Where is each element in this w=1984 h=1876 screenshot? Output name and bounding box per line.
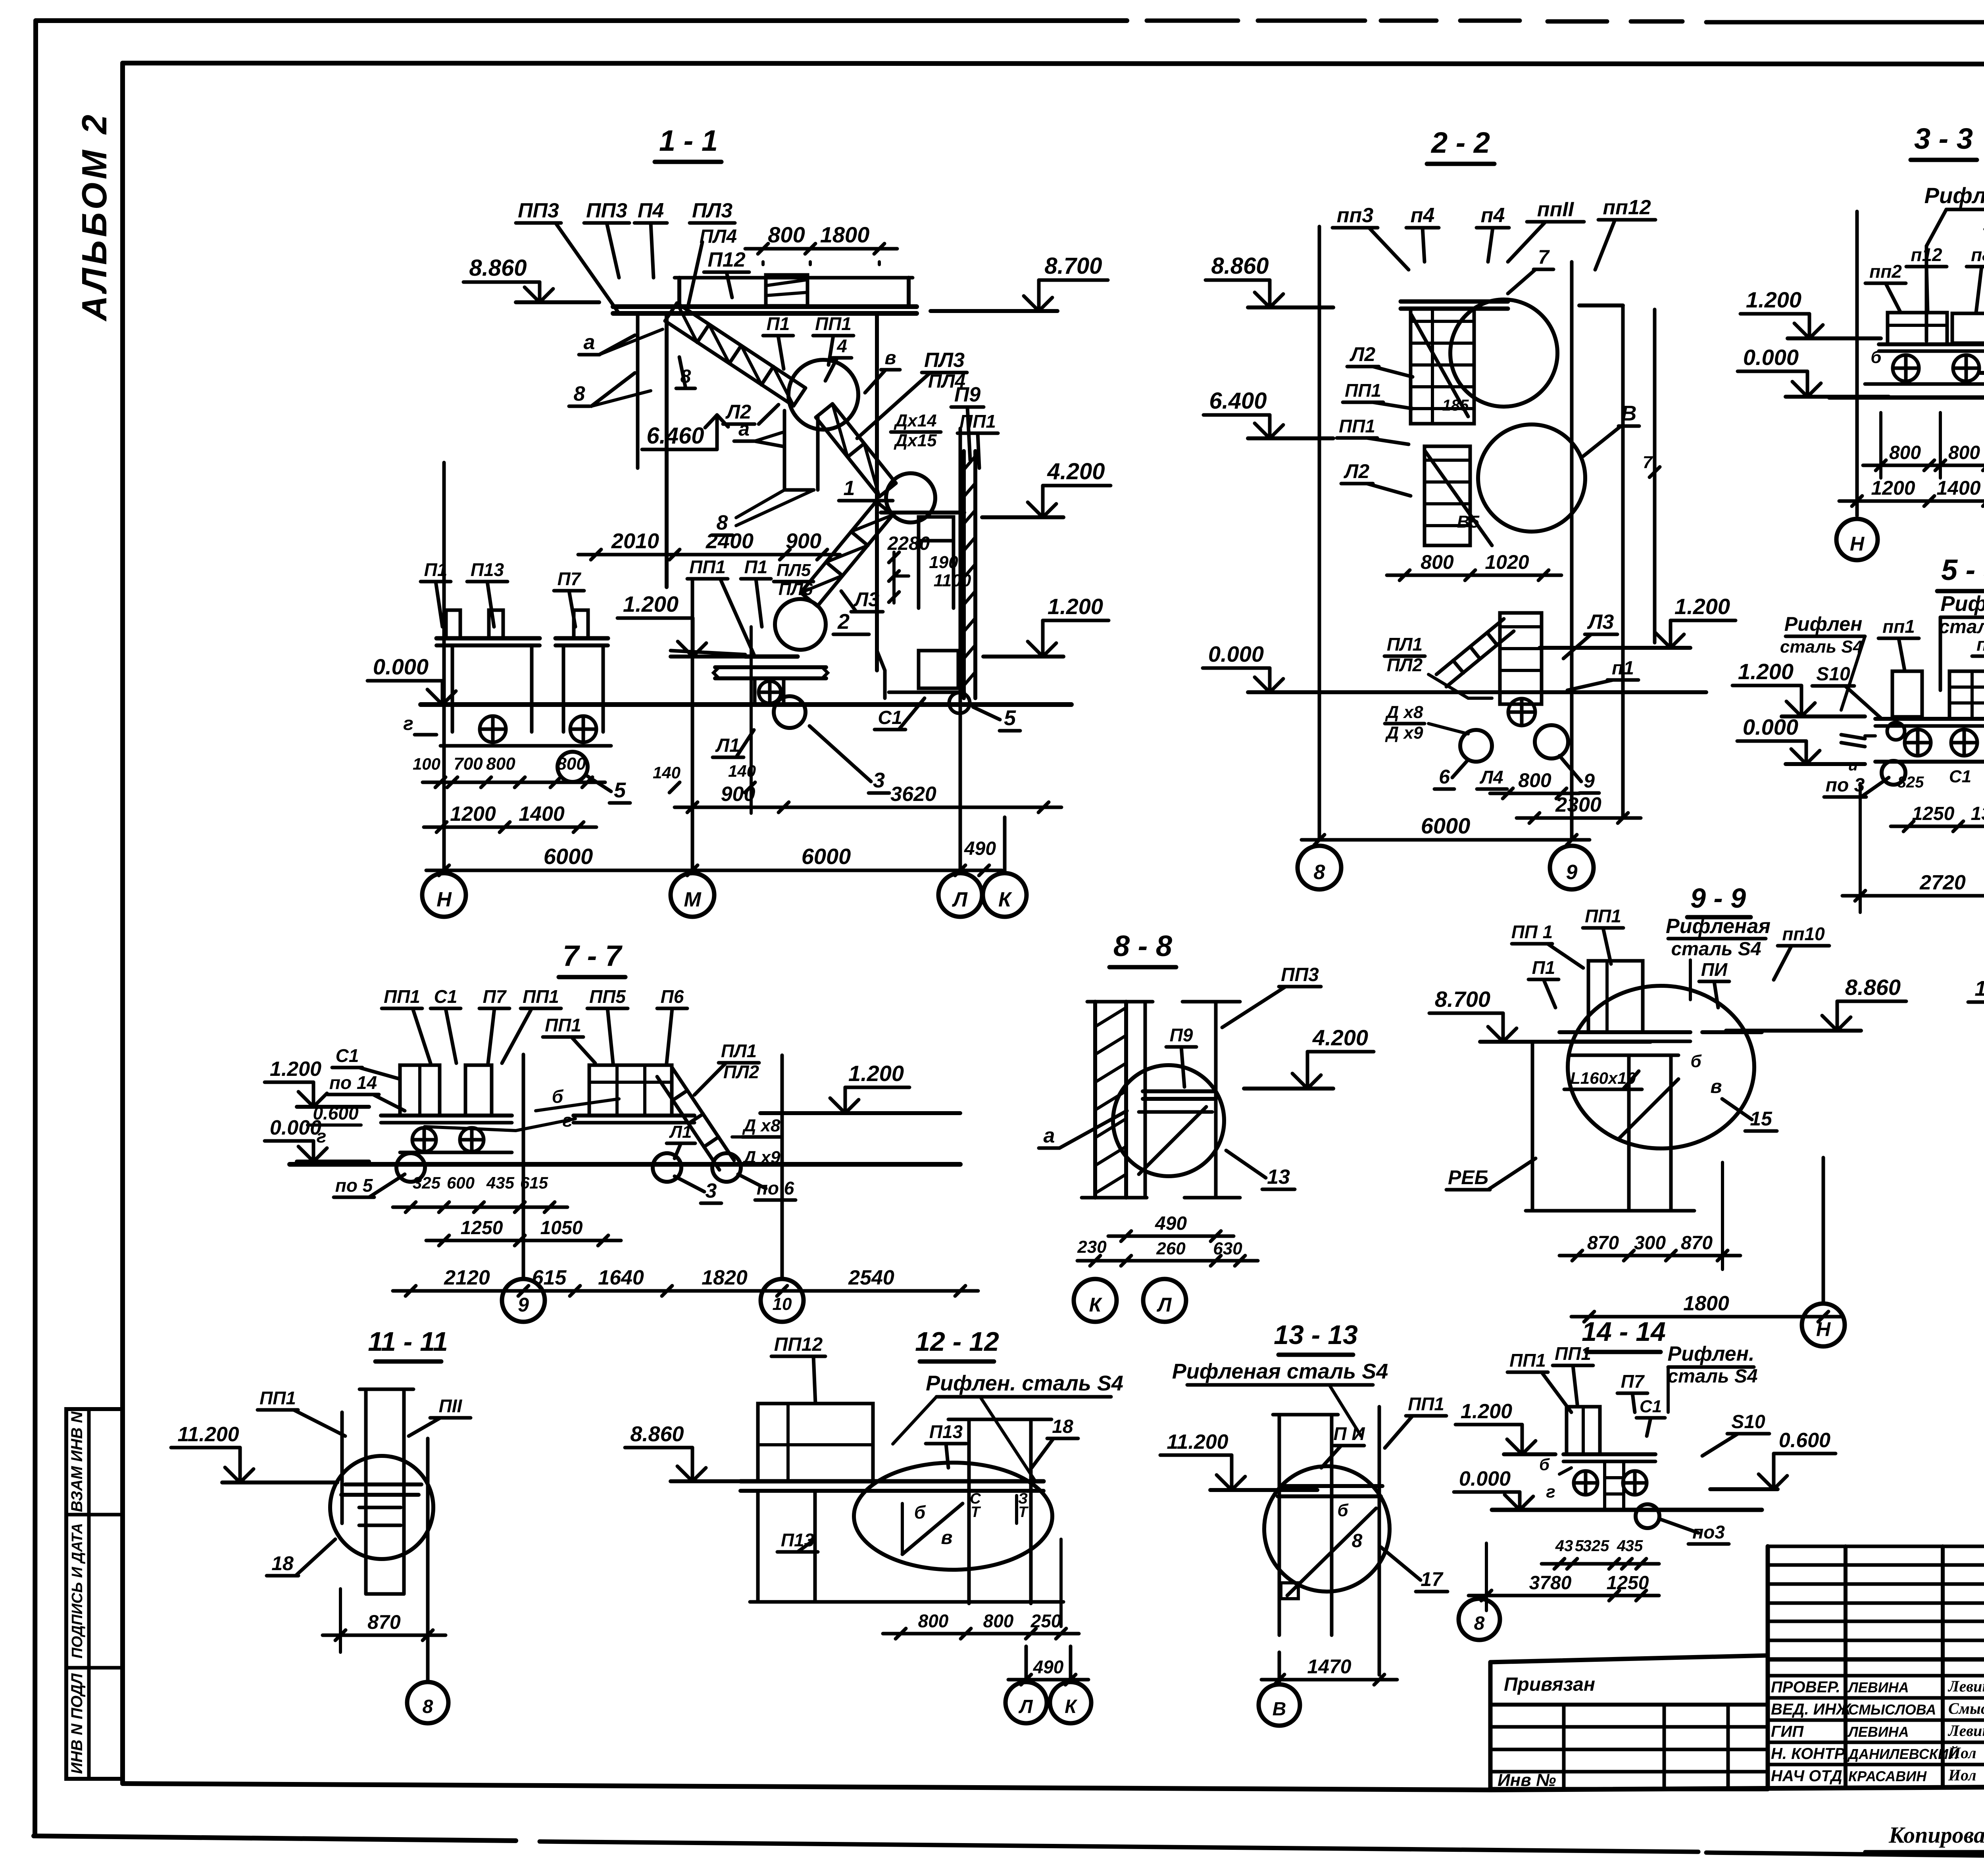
svg-text:490: 490 [1033,1657,1064,1677]
svg-text:140: 140 [653,763,681,782]
svg-text:СМЫСЛОВА: СМЫСЛОВА [1848,1701,1936,1718]
svg-text:900: 900 [786,529,821,553]
svg-text:ПЛ2: ПЛ2 [1387,655,1423,675]
svg-text:п8: п8 [1976,634,1984,655]
dimension chain 1800 [1571,1315,1841,1319]
svg-text:Инв №: Инв № [1498,1770,1556,1790]
svg-text:700: 700 [454,754,483,774]
inner frame bottom [123,1784,1490,1790]
section 1-1 stair truss L3 lower flight [817,515,893,606]
svg-text:ПОДПИСЬ И ДАТА: ПОДПИСЬ И ДАТА [69,1523,86,1659]
svg-text:8: 8 [574,382,585,405]
svg-text:Н: Н [1850,533,1865,555]
svg-text:800: 800 [1889,442,1921,463]
svg-text:S10: S10 [1731,1411,1765,1432]
svg-text:800: 800 [918,1611,949,1631]
section 8-8 detail circle [1113,1065,1224,1176]
svg-text:П7: П7 [1621,1371,1645,1392]
section 7-7 ground [290,1162,960,1167]
section 9-9 verticals [1531,1042,1534,1211]
section 1-1 wall hatched right [962,451,966,698]
svg-text:8 - 8: 8 - 8 [1113,929,1173,962]
section 1-1 long pipe [715,665,826,669]
svg-text:1050: 1050 [540,1217,583,1239]
svg-text:1640: 1640 [598,1266,644,1289]
svg-text:ппII: ппII [1537,198,1575,221]
dimension chain 2010/2400/900 [578,553,840,557]
svg-text:ВЕД. ИНЖ: ВЕД. ИНЖ [1771,1701,1851,1718]
svg-text:1.200: 1.200 [1048,594,1103,619]
svg-text:ПП1: ПП1 [1509,1350,1546,1371]
svg-text:Привязан: Привязан [1504,1674,1595,1695]
svg-text:a: a [584,331,595,354]
svg-text:Н: Н [436,888,452,911]
svg-text:1800: 1800 [1683,1292,1729,1315]
svg-text:2120: 2120 [444,1266,490,1289]
dimension chain 800/1800 [745,247,897,251]
section 11-11 plates [345,1482,421,1486]
section 5-5 equipment [1892,671,1922,717]
svg-text:5: 5 [614,778,626,802]
svg-text:490: 490 [964,838,996,859]
svg-text:a: a [1044,1124,1055,1147]
svg-text:2400: 2400 [706,529,754,553]
section 2-2 axes verticals [1318,227,1321,840]
section 9-9 oval detail [1568,986,1754,1148]
svg-text:325: 325 [413,1173,441,1192]
svg-text:0.000: 0.000 [1459,1467,1511,1490]
svg-text:S10: S10 [1816,664,1850,685]
svg-text:ПП 1: ПП 1 [1511,922,1553,942]
svg-text:П9: П9 [1170,1025,1193,1045]
section 12-12 big box [758,1404,873,1481]
svg-text:9: 9 [1584,770,1595,792]
dimension chain 1200/1400 [424,826,596,829]
section 9-9 inner details [1627,1055,1631,1211]
svg-text:Л4: Л4 [1479,767,1503,787]
svg-text:0.000: 0.000 [1208,641,1264,666]
svg-text:1.200: 1.200 [1746,287,1801,312]
svg-text:100: 100 [413,755,440,773]
svg-text:Д х8: Д х8 [1385,703,1423,722]
svg-text:5 - 5: 5 - 5 [1941,553,1984,586]
section 1-1 chute box below landing [783,411,786,490]
section 8-8 shaft verticals [1144,1002,1147,1198]
axis circle Л [1143,1279,1186,1322]
svg-text:230: 230 [1077,1237,1107,1257]
svg-text:Дх14: Дх14 [893,411,936,430]
svg-text:П13: П13 [781,1530,815,1550]
section 3-3 ground line [1829,396,1984,400]
title block left table [1490,1655,1768,1662]
dimension chain 870/300/870 [1559,1254,1740,1258]
svg-text:325: 325 [1583,1537,1609,1555]
svg-text:РЕБ: РЕБ [1448,1166,1488,1189]
section 3-3 equipment boxes [1888,313,1947,344]
svg-text:630: 630 [1213,1239,1242,1258]
svg-text:600: 600 [447,1173,475,1192]
dimension chain 870 [323,1634,446,1637]
svg-text:П13: П13 [929,1421,963,1442]
section 7-7 equipment left [400,1065,440,1116]
section 1-1 circled 3 below [774,696,806,728]
dimension chain 3780/1250 [1469,1594,1659,1598]
axis circle К [983,873,1027,917]
svg-text:3 - 3: 3 - 3 [1914,122,1973,155]
svg-text:800: 800 [768,222,805,247]
svg-text:С1: С1 [434,986,458,1007]
dimension chain //// [423,781,605,784]
svg-text:800: 800 [1421,551,1454,573]
axis circle В [1278,1652,1281,1684]
svg-text:ПП1: ПП1 [1345,380,1381,401]
svg-text:8: 8 [1314,861,1325,884]
svg-text:Д х8: Д х8 [742,1116,781,1135]
title block staff table grid [1768,1545,1984,1548]
dimension chain 800/1020 [1387,574,1561,577]
svg-text:Иол: Иол [1948,1744,1976,1762]
svg-text:Л: Л [1157,1294,1172,1316]
svg-text:б: б [552,1086,564,1107]
section 13-13 detail circle [1264,1466,1390,1592]
section 1-1 elbow circle 1 [886,473,935,522]
svg-text:6000: 6000 [1421,813,1471,838]
axis circle Л [938,873,982,917]
svg-text:870: 870 [1681,1233,1713,1254]
svg-text:в: в [1711,1076,1722,1097]
svg-text:Л2: Л2 [1350,343,1375,365]
svg-text:по 5: по 5 [335,1175,373,1196]
svg-text:11 - 11: 11 - 11 [368,1327,448,1357]
svg-text:пп12: пп12 [1603,196,1651,219]
dimension chain 1200/1400 [1839,499,1984,503]
svg-text:В: В [1273,1699,1286,1720]
svg-text:1250: 1250 [1912,803,1955,824]
svg-text:1200: 1200 [450,803,496,826]
section 1-1 right equipment at wall [919,651,958,688]
svg-text:ЛЕВИНА: ЛЕВИНА [1847,1679,1909,1696]
axis circle К [1074,1279,1117,1322]
section 7-7 stair right [672,1067,734,1160]
section 7-7 equipment right grid [589,1065,672,1116]
svg-text:ПЛ1: ПЛ1 [721,1041,757,1061]
svg-text:ПП1: ПП1 [384,986,420,1007]
svg-text:1 - 1: 1 - 1 [659,124,718,157]
svg-text:П1: П1 [1532,957,1555,978]
svg-text:С1: С1 [878,707,902,728]
svg-text:9: 9 [1566,861,1578,884]
svg-text:260: 260 [1156,1239,1186,1258]
svg-text:ПП1: ПП1 [1408,1394,1444,1414]
svg-text:7: 7 [1643,453,1653,472]
svg-text:11.200: 11.200 [177,1423,239,1446]
svg-text:35: 35 [1625,1537,1643,1555]
svg-text:7: 7 [1538,246,1550,268]
svg-text:3: 3 [706,1179,717,1202]
inner frame top [123,63,1984,64]
svg-text:п4: п4 [1411,204,1435,227]
section 2-2 top platform [1401,300,1508,304]
svg-text:0.600: 0.600 [1779,1429,1830,1452]
svg-text:8: 8 [423,1696,433,1717]
section 13-13 plates [1281,1484,1382,1488]
svg-text:1250: 1250 [1607,1573,1649,1594]
svg-text:ПП1: ПП1 [689,557,726,577]
section 12-12 oval detail [854,1463,1052,1570]
svg-text:ЛЕВИНА: ЛЕВИНА [1847,1724,1909,1740]
svg-text:п12: п12 [1911,244,1942,265]
svg-text:ПП1: ПП1 [545,1015,581,1035]
section 3-3 axis vertical [1855,211,1859,516]
dimension chain 6000 [1302,838,1590,842]
svg-text:11.200: 11.200 [1974,977,1984,1000]
sheet outer border bottom [34,1836,516,1841]
section 9-9 axis [1822,1158,1825,1303]
svg-text:870: 870 [1587,1233,1619,1254]
svg-text:ПП1: ПП1 [959,411,996,432]
svg-text:18: 18 [1052,1416,1073,1437]
svg-text:Д х9: Д х9 [1385,723,1423,743]
svg-text:П7: П7 [558,568,582,589]
svg-text:П6: П6 [661,986,684,1007]
svg-text:ПИ: ПИ [1701,959,1728,980]
svg-text:825: 825 [1897,774,1924,791]
svg-text:6.400: 6.400 [1209,388,1267,414]
svg-text:К: К [1065,1696,1078,1717]
svg-text:и: и [1848,757,1858,774]
svg-text:пп2: пп2 [1869,261,1902,282]
svg-text:190: 190 [929,553,958,572]
svg-text:1100: 1100 [934,571,971,590]
svg-text:К: К [1089,1294,1103,1316]
dimension chain 2300 [1517,816,1641,820]
section 9-9 break line bottom [1526,1209,1694,1213]
section 12-12 platform [740,1479,1044,1484]
section 12-12 bottom dim line [750,1600,1063,1604]
svg-text:490: 490 [1155,1213,1187,1234]
section 1-1 lower landing circle 2 [775,599,826,650]
svg-text:1200: 1200 [1871,477,1915,499]
svg-text:800: 800 [557,754,586,774]
svg-text:1.200: 1.200 [623,591,679,616]
svg-text:1400: 1400 [1936,477,1980,499]
svg-text:Рифленая сталь S4: Рифленая сталь S4 [1172,1359,1388,1383]
dimension chain 800/800/250 [883,1632,1079,1636]
svg-text:по 14: по 14 [329,1072,377,1093]
section 1-1 upper platform 8.700 [613,304,917,309]
svg-text:в: в [941,1527,953,1548]
svg-text:250: 250 [1030,1611,1061,1631]
svg-text:Левина: Левина [1947,1722,1984,1740]
axis circle 9 [1550,846,1594,889]
svg-text:Рифлен.: Рифлен. [1940,592,1984,616]
svg-text:Рифленая: Рифленая [1666,915,1771,938]
svg-text:3620: 3620 [890,783,936,806]
svg-text:п8: п8 [1971,244,1984,265]
svg-text:ПII: ПII [439,1396,463,1416]
svg-text:б: б [1539,1455,1550,1474]
dimension chain 2120/615/1640/1820/2540 [393,1289,978,1293]
svg-text:14 - 14: 14 - 14 [1582,1317,1666,1347]
svg-text:2300: 2300 [1555,793,1601,816]
svg-text:0.000: 0.000 [1743,345,1799,370]
section 9-9 plates [1559,1030,1690,1034]
section 1-1 bracket at wall [919,517,954,541]
section 2-2 wheel [1508,699,1535,726]
svg-text:Левина: Левина [1947,1677,1984,1695]
svg-text:Рифленая сталь: Рифленая сталь [1924,183,1984,208]
svg-text:Л3: Л3 [1587,611,1614,634]
svg-text:ПЛ3: ПЛ3 [924,349,965,372]
section 1-1 circled 5 left [558,752,588,782]
svg-text:4: 4 [836,336,847,356]
svg-text:0.000: 0.000 [1743,714,1798,739]
dimension chain 6000/6000/ [426,869,1002,872]
svg-text:1.200: 1.200 [1738,659,1794,684]
svg-text:ДАНИЛЕВСКИЙ: ДАНИЛЕВСКИЙ [1847,1745,1959,1762]
svg-text:С1: С1 [336,1045,359,1066]
svg-text:С1: С1 [1949,767,1971,786]
svg-text:г: г [1546,1482,1555,1502]
section 8-8 plates [1143,1089,1214,1093]
svg-text:2: 2 [837,610,850,634]
section 2-2 small circles bottom [1460,730,1492,762]
section 13-13 column [1278,1415,1281,1635]
section 12-12 left column below [756,1491,760,1602]
svg-text:П12: П12 [707,248,745,271]
axis circle Н [422,873,466,917]
svg-text:2720: 2720 [1919,871,1966,894]
section 7-7 axes [522,1054,525,1279]
svg-text:1.200: 1.200 [1674,594,1730,619]
svg-text:ПЛ5: ПЛ5 [777,561,811,580]
svg-text:18: 18 [271,1552,294,1575]
svg-text:0.000: 0.000 [270,1116,321,1139]
svg-text:пп3: пп3 [1337,204,1374,227]
svg-text:13 - 13: 13 - 13 [1274,1320,1358,1350]
svg-text:Дх15: Дх15 [893,431,937,450]
svg-text:6000: 6000 [544,844,593,869]
section 14-14 ground [1492,1508,1762,1512]
svg-text:10: 10 [773,1294,792,1314]
section 2-2 mid ladder [1425,446,1470,545]
svg-text:8.860: 8.860 [1211,253,1269,279]
svg-text:Копировал Подлевская: Копировал Подлевская [1888,1822,1984,1848]
svg-text:ИНВ N ПОДЛ: ИНВ N ПОДЛ [68,1673,86,1774]
svg-text:Л1: Л1 [669,1122,692,1142]
svg-text:800: 800 [486,754,515,774]
section 2-2 detail circle top [1450,300,1557,407]
section 1-1 stair truss mid flight [832,404,896,483]
svg-text:800: 800 [983,1611,1014,1631]
svg-text:1020: 1020 [1485,551,1529,573]
svg-text:Н. КОНТР.: Н. КОНТР. [1771,1745,1847,1763]
svg-text:Рифлен. сталь S4: Рифлен. сталь S4 [926,1371,1123,1395]
svg-text:800: 800 [1518,769,1551,791]
svg-text:ПЛ1: ПЛ1 [1387,634,1423,655]
svg-text:П4: П4 [638,199,664,222]
axis circle К [1069,1646,1073,1682]
svg-text:8.860: 8.860 [469,255,527,281]
axis circle Л [1025,1646,1028,1682]
svg-text:1800: 1800 [820,222,870,247]
svg-text:б: б [1871,348,1882,367]
axis circle 9 [502,1279,545,1322]
svg-text:ПП12: ПП12 [774,1334,823,1355]
axis circle Н [1836,519,1878,560]
svg-text:13: 13 [1267,1166,1290,1189]
svg-text:П13: П13 [471,559,504,580]
svg-text:8: 8 [1474,1613,1485,1634]
svg-text:17: 17 [1421,1568,1444,1590]
section 13-13 diagonal [1287,1508,1376,1596]
dimension chain /// [1542,1562,1659,1566]
svg-text:9 - 9: 9 - 9 [1690,883,1746,914]
svg-text:ПРОВЕР.: ПРОВЕР. [1771,1678,1840,1696]
svg-text:1300: 1300 [1971,803,1984,824]
svg-text:С1: С1 [1640,1397,1662,1416]
section 8-8 wall hatched [1093,1002,1097,1198]
section 2-2 upper ladder cage [1411,309,1474,424]
dimension chain 800//800 [1863,464,1984,467]
svg-text:П9: П9 [954,383,980,406]
svg-text:6: 6 [1439,766,1450,788]
sheet outer border top [36,18,1127,23]
section 12-12 verticals [967,1419,971,1603]
svg-text:8: 8 [1352,1530,1363,1551]
svg-text:ПП1: ПП1 [815,313,852,334]
svg-text:800: 800 [1948,442,1980,463]
svg-text:ПП5: ПП5 [589,986,626,1007]
section 1-1 landing circle [788,360,858,430]
section 14-14 equipment [1567,1407,1600,1454]
svg-text:М: М [684,888,702,911]
section 2-2 detail circle B [1478,424,1585,532]
svg-text:1.200: 1.200 [270,1058,321,1081]
svg-text:ВЗАМ ИНВ N: ВЗАМ ИНВ N [68,1411,86,1512]
svg-text:П7: П7 [483,986,507,1007]
svg-text:Н: Н [1816,1318,1831,1340]
svg-text:Л1: Л1 [715,735,740,756]
svg-text:б: б [914,1502,926,1523]
svg-text:Л: Л [952,888,968,911]
svg-text:9: 9 [518,1294,529,1316]
svg-text:7 - 7: 7 - 7 [563,939,623,972]
svg-text:Рифлен.: Рифлен. [1668,1342,1755,1365]
svg-text:б: б [1690,1052,1702,1071]
svg-text:43: 43 [1555,1537,1573,1555]
section 1-1 hopper box on platform [766,275,807,306]
dimension chain /// [393,1206,567,1209]
svg-text:1.200: 1.200 [1461,1400,1512,1423]
section 1-1 axis verticals [442,463,446,871]
section 1-1 left wall verticals [665,313,669,587]
section 1-1 stair truss upper flight L2 [677,303,806,388]
svg-text:0.000: 0.000 [373,654,429,679]
axis circle 8 [1298,846,1341,889]
svg-text:ПП3: ПП3 [518,199,559,222]
svg-text:сталь S4: сталь S4 [1780,637,1863,657]
dimension chain 1250/1300 [1891,825,1984,828]
svg-text:Т: Т [1018,1504,1029,1521]
svg-text:ПП3: ПП3 [1281,964,1319,985]
dimension chain 1470 [1261,1678,1397,1682]
dimension chain 490 [1008,1678,1088,1682]
dimension chain 490 [1108,1235,1234,1238]
svg-text:В5: В5 [1457,512,1480,532]
svg-text:ПЛ4: ПЛ4 [700,226,737,247]
section 11-11 column [364,1389,368,1594]
